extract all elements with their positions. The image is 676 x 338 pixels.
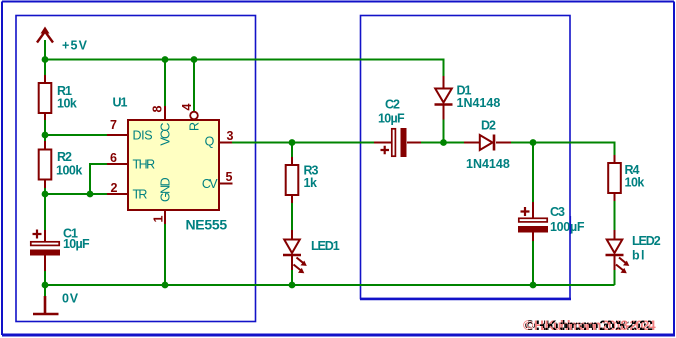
- junction GND pin rail: [162, 282, 169, 289]
- pin 2 TR stub: [107, 193, 128, 195]
- wire LED2 to rail: [614, 270, 616, 285]
- svg-text:U1: U1: [113, 96, 128, 110]
- pin 4 inversion bubble: [190, 112, 198, 120]
- wire C3 to rail: [532, 241, 534, 285]
- wire C2 to D1 node: [421, 142, 464, 144]
- junction TR/THR branch: [87, 191, 94, 198]
- wire R2 to node TR: [44, 188, 46, 230]
- junction at pin4 drop: [191, 56, 198, 63]
- power +5V symbol: [37, 27, 53, 43]
- box left section: [16, 16, 256, 322]
- copyright text black layer: [525, 318, 653, 333]
- svg-text:100k: 100k: [56, 164, 82, 178]
- svg-text:6: 6: [110, 151, 117, 165]
- pin 8 VCC stub: [164, 106, 166, 120]
- svg-text:GND: GND: [159, 177, 173, 202]
- svg-text:VCC: VCC: [159, 123, 173, 146]
- wire LED1 to rail: [291, 270, 293, 285]
- capacitor C2: [374, 128, 421, 157]
- svg-text:2: 2: [111, 181, 118, 195]
- junction node DIS: [42, 132, 49, 139]
- power 0V symbol: [33, 296, 59, 314]
- LED LED1: [283, 230, 307, 273]
- svg-text:© H.Kullmann 2008-2022: © H.Kullmann 2008-2022: [525, 318, 653, 333]
- pin 6 THR stub: [107, 163, 128, 165]
- wire THR branch: [90, 164, 107, 194]
- wire GND pin to rail: [164, 224, 166, 285]
- junction 0V left: [42, 282, 49, 289]
- svg-text:1N4148: 1N4148: [466, 157, 510, 171]
- wire C1 to 0V rail: [44, 271, 46, 296]
- svg-text:1k: 1k: [304, 176, 317, 190]
- LED LED2: [606, 230, 630, 273]
- svg-text:3: 3: [227, 129, 234, 143]
- wire R4 to LED2: [614, 201, 616, 232]
- box right section: [361, 16, 571, 299]
- wire R3 to LED1: [291, 203, 293, 232]
- wire DIS to pin7: [45, 134, 107, 136]
- diode D2: [464, 135, 511, 151]
- svg-text:+5V: +5V: [62, 39, 88, 53]
- junction node TR: [42, 191, 49, 198]
- svg-text:NE555: NE555: [186, 217, 228, 233]
- svg-text:CV: CV: [202, 177, 218, 191]
- wire D2 to R4: [511, 143, 615, 156]
- svg-text:8: 8: [151, 105, 165, 112]
- wire pin4 drop: [193, 60, 195, 112]
- svg-text:C3: C3: [550, 205, 565, 219]
- svg-text:TR: TR: [133, 188, 148, 202]
- svg-text:1: 1: [152, 215, 166, 222]
- resistor R1: [39, 75, 52, 120]
- junction at +5V/R1: [42, 56, 49, 63]
- junction at VCC drop: [162, 56, 169, 63]
- svg-text:0V: 0V: [62, 292, 79, 306]
- svg-text:10k: 10k: [57, 97, 77, 111]
- svg-text:THR: THR: [133, 158, 156, 172]
- pin 7 DIS stub: [107, 134, 128, 136]
- svg-text:LED1: LED1: [311, 239, 340, 253]
- pin 1 GND stub: [164, 210, 166, 224]
- resistor R4: [608, 155, 621, 201]
- junction LED1 rail: [289, 282, 296, 289]
- wire Q output row: [232, 142, 374, 144]
- wire VCC drop: [164, 60, 166, 107]
- svg-text:10µF: 10µF: [63, 237, 90, 251]
- svg-text:100µF: 100µF: [550, 220, 585, 234]
- diode D1: [435, 76, 453, 120]
- svg-text:7: 7: [110, 118, 117, 132]
- svg-text:5: 5: [226, 170, 233, 184]
- pin 3 Q stub: [219, 142, 232, 144]
- svg-text:DIS: DIS: [133, 129, 153, 143]
- svg-text:R: R: [188, 122, 202, 131]
- wire C3 drop: [532, 143, 534, 203]
- svg-text:10k: 10k: [625, 176, 645, 190]
- resistor R2: [39, 141, 52, 188]
- svg-text:4: 4: [180, 103, 194, 110]
- wire +5V rail: [45, 40, 444, 76]
- capacitor C1: [30, 230, 60, 272]
- box right section edge over text: [569, 216, 571, 234]
- op-amp U1 NE555 body: [128, 120, 219, 210]
- wire 0V rail: [45, 284, 615, 286]
- junction D1/D2: [440, 139, 447, 146]
- junction D2/C3: [530, 139, 537, 146]
- capacitor C3: [518, 202, 548, 241]
- svg-text:R2: R2: [57, 150, 72, 164]
- svg-text:D2: D2: [481, 119, 496, 133]
- resistor R3: [286, 143, 299, 204]
- svg-text:1N4148: 1N4148: [457, 96, 501, 110]
- pin 5 CV stub: [219, 183, 233, 185]
- svg-text:C2: C2: [385, 98, 400, 112]
- svg-text:Q: Q: [205, 135, 215, 149]
- svg-text:LED2: LED2: [632, 234, 661, 248]
- wire D1 to node: [443, 120, 445, 143]
- junction Q/R3: [289, 139, 296, 146]
- wire R1 to node DIS: [44, 120, 46, 141]
- svg-text:10µF: 10µF: [378, 112, 405, 126]
- wire TR row: [45, 193, 107, 195]
- junction C3 rail: [530, 282, 537, 289]
- svg-text:bl: bl: [632, 249, 646, 263]
